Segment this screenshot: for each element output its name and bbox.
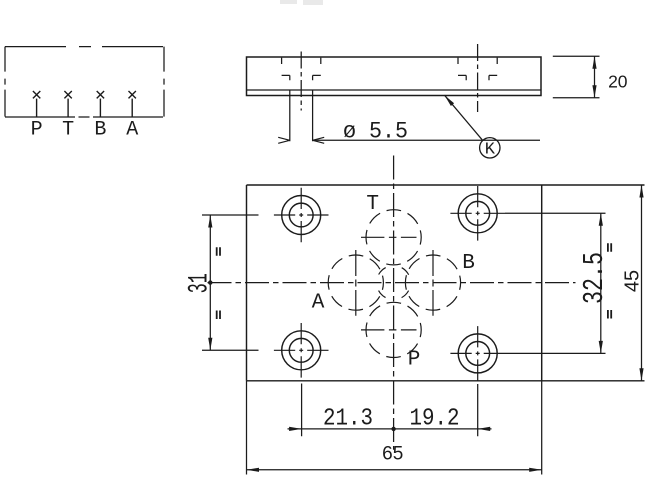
svg-text:T: T <box>62 119 74 142</box>
svg-text:K: K <box>485 141 496 160</box>
svg-text:ø 5.5: ø 5.5 <box>343 119 408 145</box>
svg-text:65: 65 <box>382 444 403 465</box>
svg-text:32.5: 32.5 <box>578 252 611 304</box>
svg-text:P: P <box>31 119 43 142</box>
svg-text:T: T <box>366 193 379 216</box>
svg-text:20: 20 <box>608 72 628 92</box>
svg-text:45: 45 <box>622 270 644 292</box>
svg-text:31: 31 <box>185 273 216 293</box>
svg-text:19.2: 19.2 <box>410 405 460 432</box>
svg-text:A: A <box>126 119 138 142</box>
svg-text:P: P <box>408 349 421 372</box>
svg-text:A: A <box>312 292 325 315</box>
svg-text:21.3: 21.3 <box>323 405 373 432</box>
svg-text:B: B <box>462 252 475 275</box>
svg-text:B: B <box>94 119 106 142</box>
